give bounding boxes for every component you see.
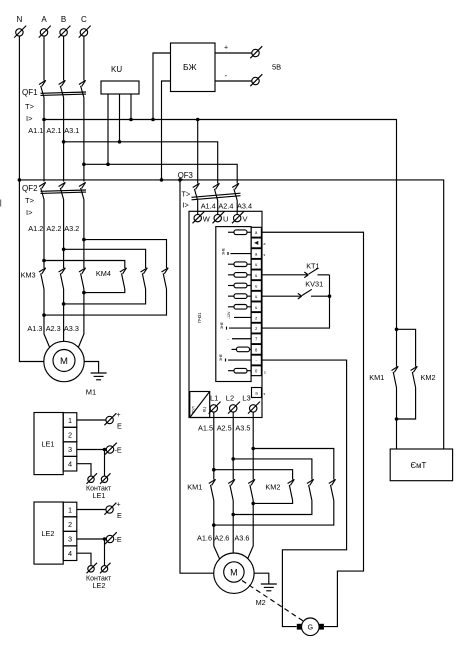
svg-text:W: W (203, 215, 211, 224)
wire KM1 upper (396, 329, 398, 366)
wire KM2 feed 3 (253, 449, 334, 480)
svg-text:u: u (255, 305, 258, 310)
circuit breaker QF3 (178, 171, 241, 210)
junction KM4 feed B (62, 248, 66, 252)
wire row9 internal (234, 316, 251, 318)
pin box 10 (251, 323, 261, 333)
wire neutral N vertical (19, 36, 44, 361)
transformer block KU (101, 65, 139, 94)
svg-text:I>: I> (26, 208, 33, 217)
pin box 3 (251, 249, 261, 259)
svg-text:4: 4 (68, 549, 72, 558)
svg-text:A1.6: A1.6 (197, 534, 212, 543)
junction row4 left drop (178, 178, 182, 182)
wire KM2 branch top (397, 329, 416, 366)
wire M2 phase 1 (214, 501, 220, 559)
terminal BJ minus (250, 74, 262, 86)
resistor R row1 (228, 230, 251, 235)
svg-text:I>: I> (183, 201, 189, 210)
wire LE1 pin3 (77, 449, 107, 451)
svg-text:s: s (264, 253, 266, 257)
contactor KM2 contact 2 (307, 479, 314, 500)
wire row13 internal (226, 359, 252, 362)
junction row3 KU (106, 163, 110, 167)
svg-text:M: M (230, 568, 238, 578)
svg-text:A3.3: A3.3 (64, 324, 79, 333)
terminal LE2 contact b (87, 563, 98, 574)
svg-text:A2.2: A2.2 (46, 224, 61, 233)
capacitor block EmT (390, 449, 452, 481)
svg-text:-: - (225, 71, 228, 80)
power supply block BJ (171, 43, 216, 92)
terminal LE1 contact b (87, 473, 98, 484)
svg-text:s: s (264, 392, 266, 396)
terminal L1 (209, 394, 221, 414)
svg-text:3: 3 (68, 535, 72, 544)
wire L3 down (252, 412, 254, 479)
wire LE2 pin1 (77, 509, 106, 511)
terminal B (58, 15, 70, 38)
svg-text:-: - (255, 358, 257, 363)
terminal LE1 contact a (100, 473, 111, 484)
contactor KM3 contact 1 (39, 268, 46, 289)
svg-text:7: 7 (255, 337, 258, 342)
wire KU stub 2 (119, 94, 121, 142)
svg-text:2: 2 (68, 431, 72, 440)
svg-text:A3.2: A3.2 (64, 224, 79, 233)
wire LE2 pin4 (77, 553, 91, 565)
junction row4 BJ (160, 178, 164, 182)
junction row3 phase C (82, 163, 86, 167)
junction KM4 feed C (82, 238, 86, 242)
svg-text:KU: KU (111, 65, 122, 74)
svg-text:M: M (60, 356, 68, 367)
wire KM1 lower (396, 388, 398, 450)
wire phase B top (63, 36, 65, 80)
junction KM4 feed A (42, 259, 46, 263)
svg-text:A1.2: A1.2 (28, 224, 43, 233)
resistor R row6 (228, 283, 251, 288)
wire LE1 pin4 (77, 464, 91, 476)
resistor R row14 (228, 368, 251, 373)
svg-text:LE1: LE1 (42, 440, 55, 449)
wire left drop to M2 (180, 180, 214, 573)
svg-text:N: N (17, 15, 23, 24)
wire BJ left lower (162, 81, 171, 180)
tacho generator G (297, 618, 324, 636)
wire M2 phase 2 (232, 501, 234, 554)
terminal LE2 minus E (105, 532, 122, 544)
svg-text:1: 1 (68, 416, 72, 425)
contactor KM1 contact 2 (228, 479, 235, 500)
svg-text:z: z (255, 315, 257, 320)
wire KM2 feed 1 (214, 470, 293, 480)
motor M2 (214, 553, 266, 607)
pin box 13 (251, 355, 261, 365)
wire row3 internal (228, 252, 251, 255)
shaft coupling dashed (242, 581, 303, 621)
svg-text:~: ~ (227, 337, 230, 342)
wire row 1 phase A bus (44, 120, 397, 330)
resistor R row12 (232, 347, 252, 352)
contactor KM4 contact 3 (162, 268, 169, 289)
junction KM2 return 2 (231, 513, 235, 517)
svg-text:T>: T> (25, 102, 35, 111)
wire phase C top (83, 36, 85, 80)
relay block LE1 (34, 413, 77, 475)
svg-text:B: B (61, 15, 66, 24)
junction KM1 KM2 split (395, 328, 399, 332)
wire M2 right to ground (254, 573, 269, 584)
contactor KM3 contact 3 (79, 268, 86, 289)
junction LE2 minus (103, 537, 107, 541)
svg-text:I>: I> (26, 114, 33, 123)
svg-text:G: G (308, 625, 313, 632)
svg-text:3: 3 (68, 445, 72, 454)
wire KM2 return 3 (214, 501, 334, 526)
contact KT1 (304, 268, 329, 278)
junction KM2 feed 3 (251, 447, 255, 451)
pin box 7 (251, 291, 261, 301)
resistor R row5 (228, 273, 251, 278)
pin box 11 (251, 334, 261, 344)
svg-text:KM2: KM2 (265, 483, 280, 492)
svg-text:БЖ: БЖ (183, 62, 197, 72)
junction KM4 return A (42, 313, 46, 317)
contact KM1 right (369, 366, 398, 387)
pin box 4 (251, 259, 261, 269)
svg-text:V: V (243, 215, 248, 224)
wire BJ minus output (215, 71, 252, 81)
junction KM2 feed 2 (231, 457, 235, 461)
wire LE1 contact a (104, 450, 106, 476)
wire KT1 left lead (261, 274, 307, 276)
resistor R row4 (228, 262, 251, 267)
contactor KM2 contact 3 (329, 479, 336, 500)
svg-text:A2.5: A2.5 (217, 424, 232, 433)
terminal LE1 minus E (105, 443, 122, 455)
converter corner box with diagonal (190, 392, 210, 418)
svg-text:E: E (117, 422, 122, 431)
svg-text:u: u (255, 262, 258, 267)
wire KM4 feed A (44, 261, 125, 269)
wire phase B to M1 (63, 289, 65, 341)
terminal LE2 contact a (100, 563, 111, 574)
svg-text:T>: T> (182, 190, 191, 199)
contactor KM3 contact 2 (59, 268, 66, 289)
junction KV31 (328, 294, 332, 298)
terminal W (193, 211, 211, 223)
standalone pin box (252, 388, 266, 398)
svg-text:A2.6: A2.6 (214, 534, 229, 543)
wire LE1 pin1 (77, 419, 106, 421)
wire phase B QF2 down (63, 200, 65, 269)
svg-text:1: 1 (68, 506, 72, 515)
wire L1 down (213, 412, 215, 479)
svg-text:a: a (255, 391, 258, 396)
svg-text:-E: -E (115, 535, 122, 544)
wire KM4 feed C (84, 240, 167, 268)
svg-text:L2: L2 (226, 394, 234, 403)
svg-text:A2.1: A2.1 (46, 126, 61, 135)
svg-text:C: C (81, 15, 87, 24)
wire BJ left upper (153, 53, 171, 120)
relay block LE2 (34, 502, 77, 564)
wire M1 right to ground (84, 362, 98, 374)
wire row10 internal (227, 327, 252, 330)
svg-text:a: a (255, 230, 258, 235)
pin box 6 (251, 281, 261, 291)
svg-text:LE2: LE2 (93, 581, 106, 590)
resistor R row7 (228, 294, 251, 299)
terminal C (79, 15, 91, 38)
svg-text:5В: 5В (272, 63, 281, 72)
svg-text:KM1: KM1 (369, 373, 384, 382)
svg-text:A: A (41, 15, 47, 24)
junction row4 N (18, 178, 22, 182)
svg-text:E: E (117, 511, 122, 520)
terminal LE2 plus E (104, 502, 122, 521)
svg-text:A3.4: A3.4 (237, 202, 252, 211)
svg-text:-E: -E (115, 446, 122, 455)
svg-text:ЄмТ: ЄмТ (411, 461, 427, 470)
wire KM4 return 2 (64, 289, 146, 304)
wire KU stub 1 (130, 94, 132, 120)
svg-text:U: U (223, 215, 228, 224)
wire BJ plus output (215, 45, 252, 54)
svg-text:+: + (224, 45, 228, 52)
wire phase B QF1 to QF2 (63, 98, 65, 182)
svg-text:a: a (264, 242, 266, 246)
svg-text:LE2: LE2 (42, 529, 55, 538)
svg-text:M1: M1 (86, 388, 96, 397)
svg-text:+: + (117, 502, 121, 509)
wire row 2 phase B bus (64, 142, 218, 184)
wire LE2 pin3 (77, 538, 107, 540)
wire KM2 return 2 (233, 501, 312, 515)
svg-text:KM4: KM4 (96, 269, 111, 278)
svg-text:KM2: KM2 (421, 373, 436, 382)
terminal V (232, 211, 248, 223)
junction row1 BJ (151, 118, 155, 122)
junction row1 phase A (42, 118, 46, 122)
terminal L3 (242, 394, 260, 414)
circuit breaker QF1 (22, 80, 86, 123)
svg-text:u: u (255, 284, 258, 289)
wire QF3 pole3 to V (236, 201, 238, 215)
junction KM2 feed 1 (212, 468, 216, 472)
wire QF3 pole1 to W (197, 201, 199, 215)
svg-text:РУЛ: РУЛ (192, 406, 196, 413)
wire M2 phase 3 (248, 501, 254, 559)
wire KT1 KV31 common drop (261, 275, 329, 328)
svg-text:ВЦ: ВЦ (203, 407, 207, 412)
svg-text:2: 2 (68, 520, 72, 529)
motor M1 (44, 341, 96, 396)
wire converter row1 to tacho right (261, 232, 363, 626)
scan artifact left edge (0, 200, 1, 207)
svg-text:KT1: KT1 (306, 261, 319, 270)
wire phase C QF1 to QF2 (83, 98, 85, 182)
svg-text:QF2: QF2 (22, 184, 38, 193)
wire KM4 return 3 (44, 289, 167, 315)
terminal A (39, 15, 51, 38)
svg-text:ЗНЕ: ЗНЕ (222, 247, 226, 255)
svg-text:ПЧ31: ПЧ31 (197, 312, 202, 323)
junction KM2 return 1 (212, 523, 216, 527)
wire phase A top (43, 36, 45, 80)
svg-text:A3.1: A3.1 (64, 126, 79, 135)
junction row2 phase B (62, 140, 66, 144)
pin box 8 (251, 302, 261, 312)
svg-text:4: 4 (68, 460, 72, 469)
contactor KM2 contact 1 (288, 479, 295, 500)
wire phase A QF2 down (43, 200, 45, 269)
wire KM2 return 1 (253, 501, 292, 504)
wire row 4 neutral bus (19, 180, 443, 449)
svg-text:T>: T> (25, 196, 35, 205)
svg-text:a: a (255, 252, 258, 257)
svg-text:0: 0 (255, 369, 258, 374)
svg-text:u: u (255, 273, 258, 278)
ground M2 (261, 584, 277, 591)
pin box 2 (251, 238, 261, 248)
wire converter row13 to tacho left (261, 360, 346, 627)
junction KM4 return C (82, 291, 86, 295)
wire phase C QF2 down (83, 200, 85, 269)
svg-text:z: z (255, 326, 257, 331)
svg-text:L3: L3 (242, 394, 250, 403)
svg-text:8: 8 (255, 347, 258, 352)
junction row1 KU (129, 118, 133, 122)
wire phase A QF1 to QF2 (43, 98, 45, 182)
contactor KM4 contact 1 (120, 268, 127, 289)
wire KV31 left lead (261, 295, 301, 297)
contact KM2 right (411, 366, 436, 387)
terminal N (14, 15, 26, 38)
pin box 9 (251, 313, 261, 323)
svg-text:A3.6: A3.6 (234, 534, 249, 543)
contactor KM1 contact 3 (248, 479, 255, 500)
wire QF3 pole2 to U (217, 201, 219, 215)
junction LE1 minus (103, 448, 107, 452)
frequency converter block U2 outer (189, 211, 262, 417)
svg-text:KV31: KV31 (305, 279, 323, 288)
wire phase A to M1 (44, 289, 50, 348)
contact KV31 (298, 289, 330, 299)
pin box 14 (251, 366, 261, 376)
terminal LE1 plus E (104, 412, 122, 431)
svg-text:ЗНЕ: ЗНЕ (219, 353, 223, 361)
svg-text:QF1: QF1 (22, 88, 38, 97)
wire LE2 contact a (104, 539, 106, 565)
wire KM2 branch bottom (397, 388, 416, 420)
wire KU stub 3 (107, 94, 109, 164)
svg-text:QF3: QF3 (178, 171, 193, 180)
svg-text:s: s (264, 371, 266, 375)
terminal U (213, 211, 229, 223)
svg-text:A1.5: A1.5 (198, 424, 213, 433)
svg-text:A1.3: A1.3 (27, 324, 42, 333)
pin box 1 (251, 227, 261, 237)
svg-text:A2.4: A2.4 (218, 202, 233, 211)
converter inner board (216, 227, 251, 382)
junction KM1 KM2 join (395, 417, 399, 421)
circuit breaker QF2 (22, 182, 86, 217)
svg-text:A3.5: A3.5 (235, 424, 250, 433)
svg-text:KM1: KM1 (187, 483, 202, 492)
contactor KM4 contact 2 (141, 268, 148, 289)
ground M1 (91, 373, 107, 380)
svg-text:KM3: KM3 (21, 271, 36, 280)
terminal BJ plus (250, 46, 262, 58)
terminal L2 (226, 394, 240, 414)
svg-text:ЗНЕ: ЗНЕ (220, 321, 224, 329)
wire KM2 feed 2 (233, 459, 312, 480)
wire KM4 feed B (64, 249, 146, 268)
resistor R row8 (228, 305, 251, 310)
wire QF3 pole1 feed (197, 120, 199, 184)
pin box 5 (251, 270, 261, 280)
wire phase C to M1 (78, 289, 84, 348)
svg-text:u: u (255, 294, 258, 299)
svg-text:-12V: -12V (227, 311, 231, 319)
svg-text:+: + (117, 412, 121, 419)
svg-text:A1.1: A1.1 (28, 126, 43, 135)
junction row2 KU (118, 140, 122, 144)
svg-text:M2: M2 (256, 598, 266, 607)
wire KM4 return 1 (84, 289, 125, 293)
svg-text:A2.3: A2.3 (46, 324, 61, 333)
junction KM4 return B (62, 302, 66, 306)
contactor KM1 contact 1 (209, 479, 216, 500)
pin box 12 (251, 344, 261, 354)
wire row11 internal (227, 337, 251, 342)
wire row 3 phase C bus (84, 164, 237, 183)
junction KM2 return 3 (251, 502, 255, 506)
wire L2 down (232, 412, 234, 479)
svg-text:L1: L1 (210, 394, 218, 403)
svg-text:LE1: LE1 (93, 491, 106, 500)
svg-text:A1.4: A1.4 (201, 202, 216, 211)
junction row1 QF3 (196, 118, 200, 122)
